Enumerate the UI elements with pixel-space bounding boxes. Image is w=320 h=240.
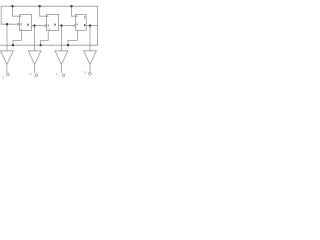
pin label U1 D (21, 23, 22, 25)
buffer A1 (1, 51, 14, 73)
svg-text:t1: t1 (2, 76, 5, 80)
node feedback junction (6, 23, 8, 25)
terminal phi1 (7, 73, 10, 76)
wire feedback to U1 input (1, 23, 18, 25)
pin label U1 Q (27, 24, 28, 26)
pin label U2 R (49, 29, 50, 30)
wire buffer3 input drop (61, 26, 63, 51)
wire left feedback vertical (0, 6, 2, 24)
node CLK junction stage1 (11, 5, 13, 7)
wire U3 output to right vertical (86, 25, 97, 27)
wire U3 bottom pin to bus (68, 30, 78, 45)
pin label U3 Q (84, 16, 85, 18)
wire buffer1 input drop (6, 24, 8, 51)
wire U1 output to U2 (31, 25, 45, 27)
wire clock drop stage3 (72, 6, 76, 16)
buffer A4 (84, 51, 97, 72)
pin label U2 D (48, 25, 49, 27)
terminal phi3 (62, 74, 65, 77)
buffer A3 (55, 51, 68, 73)
pin label U3 Qb (84, 24, 85, 26)
node bus junction 2 (39, 44, 41, 46)
wire U1 bottom pin to bus (13, 31, 22, 46)
flip-flop U2 (45, 15, 59, 31)
flip-flop U1 (18, 15, 32, 31)
terminal phi2 (35, 74, 38, 77)
svg-text:t4: t4 (84, 70, 87, 74)
node CLK junction stage2 (39, 5, 41, 7)
wire top clock bus (1, 5, 97, 7)
buffer A2 (28, 51, 41, 73)
flip-flop U3 (74, 15, 86, 31)
node U2 output junction (60, 24, 62, 26)
node U3 output junction (89, 24, 91, 26)
terminal phi4 (89, 73, 92, 76)
wire clock drop stage1 (13, 6, 20, 16)
pin label U2 Q (54, 24, 55, 26)
node bus junction 1 (12, 44, 14, 46)
svg-text:t3: t3 (56, 72, 59, 76)
pin label U3 D (77, 23, 78, 25)
node CLK junction stage3 (70, 5, 72, 7)
wire U2 bottom pin to bus (41, 31, 49, 46)
pin label U1 R (21, 28, 22, 29)
wire buffer2 input drop (34, 26, 36, 51)
wire U2 output to U3 (59, 25, 74, 27)
wire buffer4 input drop (89, 26, 91, 51)
svg-text:t2: t2 (29, 72, 32, 76)
node U1 output junction (33, 24, 35, 26)
node bus junction 3 (67, 44, 69, 46)
wire bottom bus (0, 44, 97, 46)
wire clock drop stage2 (40, 6, 47, 16)
wire right vertical (96, 6, 98, 45)
